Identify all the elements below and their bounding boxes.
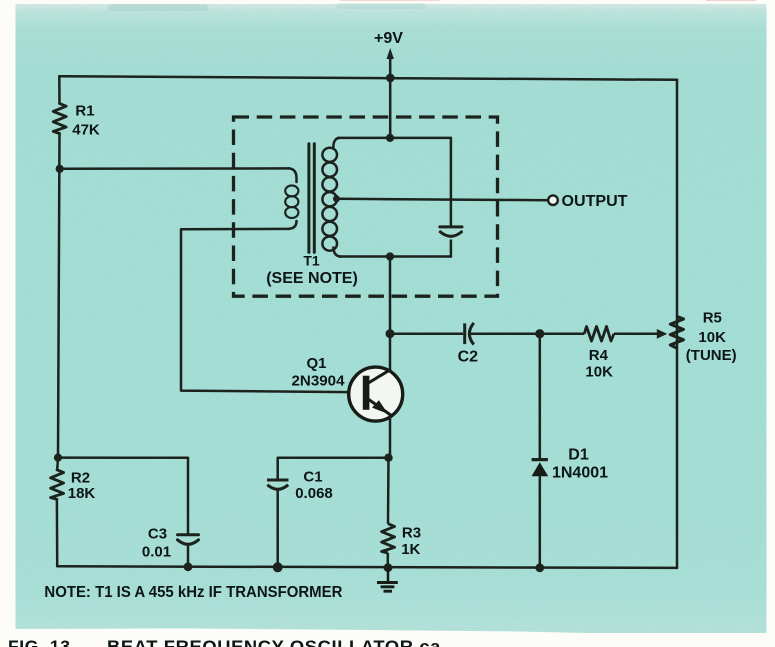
node R2/C3 junction — [54, 454, 62, 462]
node D1 bottom junction — [535, 563, 544, 572]
transistor Q1 — [349, 334, 403, 458]
diode D1 — [532, 334, 549, 568]
svg-text:NOTE: T1 IS A 455 kHz IF TRANS: NOTE: T1 IS A 455 kHz IF TRANSFORMER — [44, 584, 343, 601]
capacitor C2 — [390, 323, 540, 345]
bottom paper edge — [0, 628, 775, 647]
wire to transformer primary — [60, 167, 289, 170]
svg-text:R4: R4 — [589, 347, 609, 364]
wire R2 node to C3 — [58, 458, 188, 534]
node tap — [333, 195, 340, 202]
wire C3 to bottom rail — [187, 545, 190, 567]
node secondary bottom junction — [386, 252, 394, 260]
T1 primary lead bottom — [289, 221, 297, 229]
wire emitter to C1 — [278, 458, 389, 479]
svg-text:(SEE NOTE): (SEE NOTE) — [266, 270, 358, 287]
node +9V junction — [386, 74, 395, 83]
faint scan smudges — [108, 4, 208, 11]
+9V arrowhead — [387, 48, 394, 59]
R4 wiper arrowhead into R5 — [657, 329, 667, 339]
node secondary top junction — [386, 134, 394, 142]
svg-text:T1: T1 — [303, 252, 320, 268]
svg-text:R3: R3 — [402, 524, 421, 541]
resistor R2 — [51, 470, 64, 500]
wire left rail upper — [58, 76, 61, 103]
svg-text:C2: C2 — [458, 349, 479, 366]
wire right rail — [676, 80, 679, 568]
svg-text:R1: R1 — [75, 102, 94, 119]
svg-text:1K: 1K — [401, 541, 420, 558]
svg-text:2N3904: 2N3904 — [292, 372, 346, 389]
svg-text:47K: 47K — [72, 121, 100, 138]
svg-text:OUTPUT: OUTPUT — [562, 193, 628, 210]
red ink specks top edge — [340, 0, 440, 1]
wire tap to OUTPUT — [337, 199, 549, 200]
wire primary bottom to base — [181, 229, 364, 392]
node C1 bottom junction — [273, 562, 283, 572]
svg-text:0.068: 0.068 — [295, 485, 333, 502]
node R1/primary junction — [56, 165, 64, 173]
T1 secondary winding — [322, 148, 337, 251]
Q1 emitter lead — [368, 399, 392, 416]
wire left rail mid — [58, 134, 60, 458]
capacitor C1 — [267, 480, 289, 489]
resistor R1 — [53, 104, 66, 134]
node R3 bottom junction — [384, 563, 393, 572]
T1 primary lead top — [289, 168, 297, 182]
ground — [377, 568, 398, 592]
capacitor C3 — [178, 535, 199, 545]
svg-text:C1: C1 — [303, 468, 322, 485]
T1 secondary lead top — [333, 138, 339, 148]
T1 primary winding — [285, 185, 298, 218]
svg-text:Q1: Q1 — [306, 355, 326, 372]
resistor R3 — [382, 458, 395, 568]
svg-text:+9V: +9V — [374, 30, 403, 47]
potentiometer R5 — [670, 316, 683, 348]
svg-text:10K: 10K — [698, 329, 726, 346]
node C3 bottom junction — [184, 562, 193, 571]
svg-text:1N4001: 1N4001 — [552, 465, 608, 482]
T1 core — [309, 144, 314, 253]
Q1 collector lead — [368, 369, 392, 383]
svg-text:R5: R5 — [703, 309, 722, 326]
wire secondary top — [338, 137, 451, 140]
svg-text:C3: C3 — [148, 525, 167, 542]
resistor R4 — [540, 327, 659, 342]
svg-text:(TUNE): (TUNE) — [686, 347, 737, 364]
wire +9V stem — [389, 57, 392, 138]
wire secondary bottom — [339, 255, 451, 258]
wire C1 to bottom rail — [276, 490, 279, 568]
node C2/R4/D1 junction — [535, 329, 544, 338]
node collector junction — [386, 329, 395, 338]
dashed enclosure T1 — [234, 117, 498, 296]
capacitor tank (inside T1 box) — [440, 227, 462, 236]
svg-text:R2: R2 — [71, 469, 90, 486]
wire tank cap branch — [450, 138, 453, 226]
terminal OUTPUT — [548, 195, 558, 205]
svg-text:18K: 18K — [68, 485, 96, 502]
wire left rail lower — [56, 458, 59, 470]
svg-text:0.01: 0.01 — [142, 543, 171, 560]
transformer T1 — [181, 138, 548, 392]
svg-text:10K: 10K — [585, 363, 613, 380]
wire top rail — [59, 76, 677, 80]
T1 secondary lead bottom — [333, 248, 341, 257]
Q1 base bar — [363, 376, 370, 410]
svg-text:D1: D1 — [568, 446, 589, 463]
wire bottom rail — [57, 566, 677, 568]
node emitter/C1 junction — [384, 454, 392, 462]
wire collector stem — [389, 257, 392, 334]
